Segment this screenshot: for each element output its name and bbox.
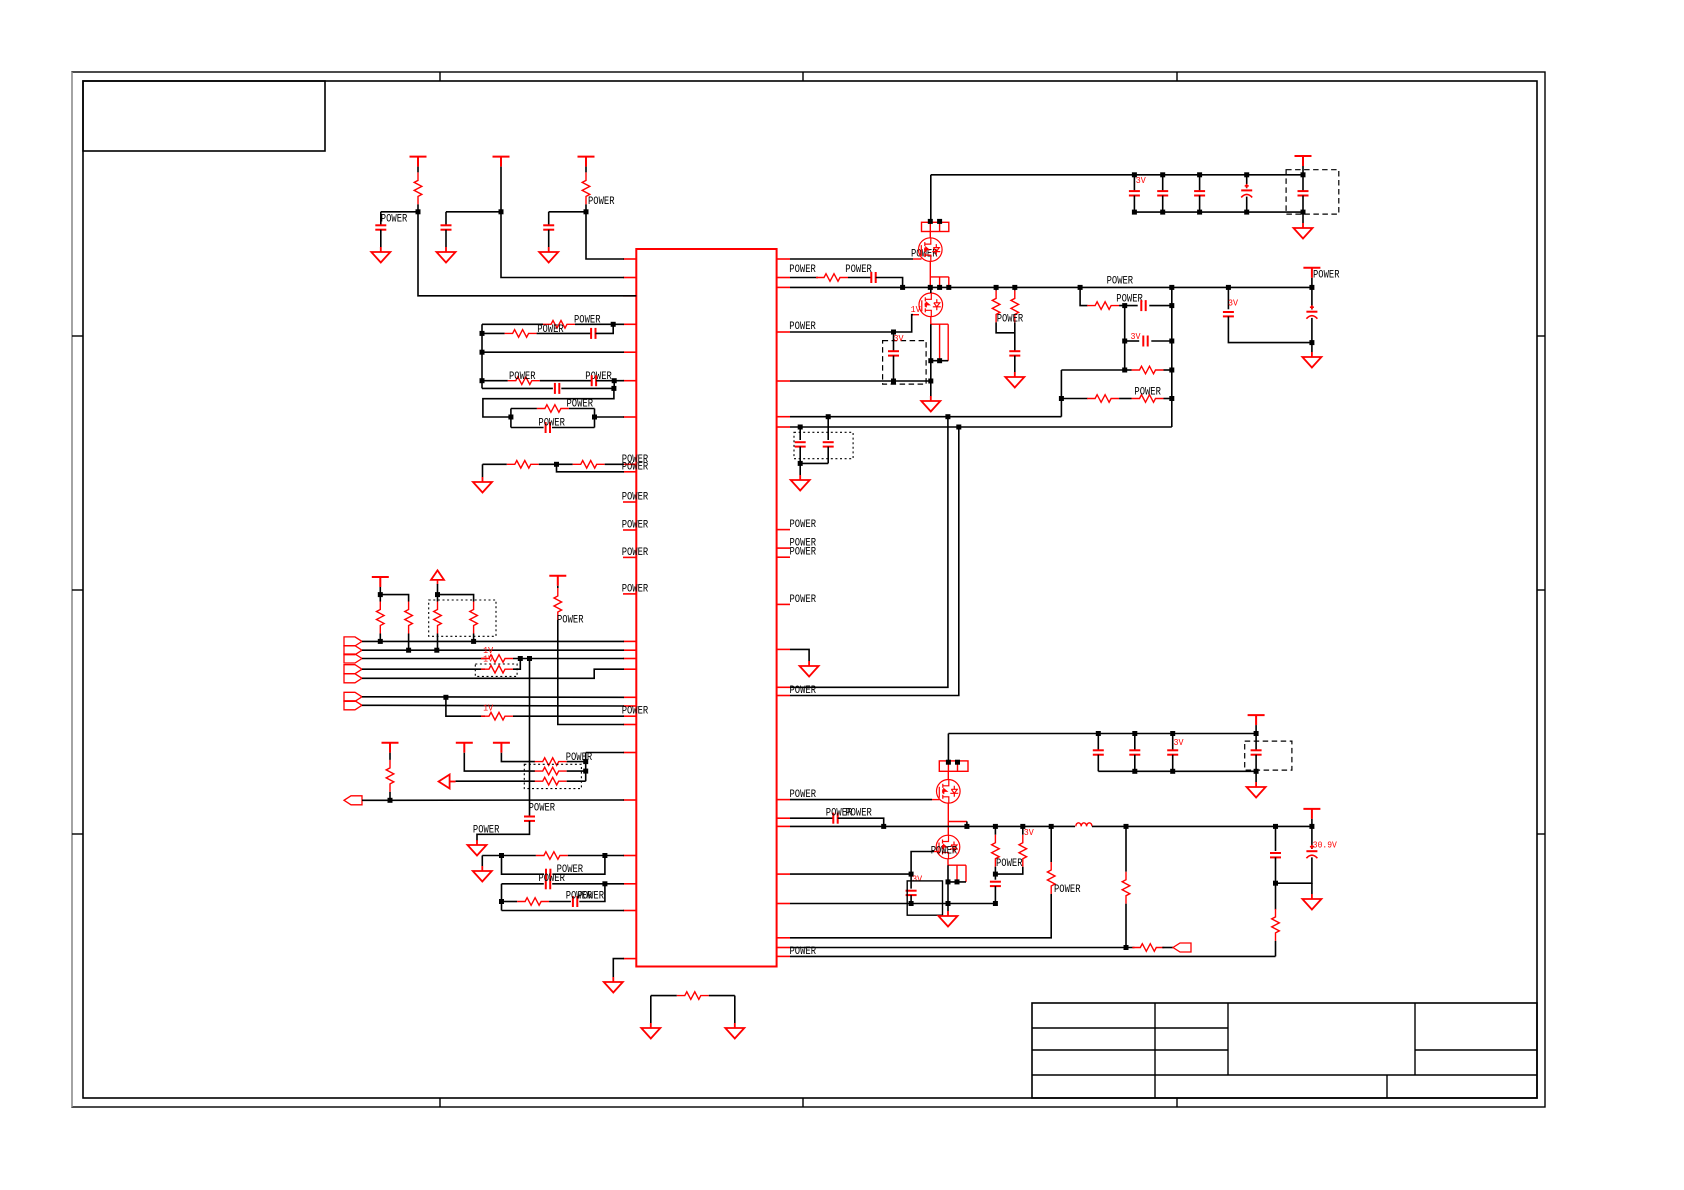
wire	[417, 167, 419, 173]
main bus 287	[790, 286, 1312, 288]
wire	[1246, 175, 1248, 188]
wire net855	[482, 855, 536, 857]
transistor Q2	[919, 293, 943, 317]
IC right pin y=818.2	[777, 817, 790, 819]
ground colB	[437, 247, 456, 263]
capacitor netF	[546, 422, 550, 433]
IC right pin y=649.4	[777, 648, 790, 650]
wire pin903	[790, 903, 995, 905]
svg-text:POWER: POWER	[1116, 294, 1143, 306]
svg-text:3V: 3V	[1136, 175, 1146, 186]
junction (1124.7,341)	[1122, 339, 1127, 344]
IC left pin y=352.2	[623, 351, 636, 353]
wire net E	[482, 387, 553, 389]
svg-text:POWER: POWER	[622, 520, 649, 532]
junction (390,800.3)	[388, 798, 393, 803]
junction (995.4,903.5)	[993, 901, 998, 906]
resistor par1	[992, 290, 1000, 322]
transistor Q3	[937, 780, 961, 804]
wire	[1097, 734, 1099, 751]
branch below	[502, 856, 545, 875]
IC right pin y=604.4	[777, 603, 790, 605]
junction (1246.7,174.8)	[1244, 172, 1249, 177]
capacitor par	[1009, 351, 1020, 355]
3V cap branch	[1227, 287, 1229, 309]
ground Q4	[939, 911, 958, 927]
resistor bottom	[677, 992, 709, 1000]
svg-text:POWER: POWER	[997, 314, 1024, 326]
resistor st2b	[1019, 835, 1027, 867]
junction (996.1,287.4)	[994, 285, 999, 290]
IC right pin y=874.1	[777, 873, 790, 875]
junction (482,352.2)	[480, 350, 485, 355]
wire cap gate	[910, 874, 912, 889]
red component box above Q1	[922, 222, 949, 231]
IC right pin y=687.3	[777, 686, 790, 688]
junction (1134.4,212.1)	[1132, 210, 1137, 215]
svg-text:POWER: POWER	[537, 324, 564, 336]
ground tap	[468, 840, 487, 856]
resistor pullup4	[470, 602, 478, 634]
wire	[947, 865, 949, 903]
resistor net464a	[507, 461, 539, 469]
IC left pin y=471.8	[623, 471, 636, 473]
junction (1228.4,287.4)	[1226, 285, 1231, 290]
wire	[1275, 857, 1277, 883]
wire	[552, 427, 595, 429]
wire	[437, 584, 439, 602]
junction (614.2,380.7)	[612, 378, 617, 383]
IC left pin y=650.2	[623, 649, 636, 651]
resistor netA	[543, 321, 575, 329]
wire	[389, 753, 391, 760]
wire net E return	[483, 388, 614, 417]
junction (939.6,221.4)	[937, 219, 942, 224]
Q3 drain lead	[947, 771, 949, 779]
bus1 wire	[362, 640, 624, 642]
capacitor net901	[573, 896, 577, 907]
IC right pin y=416.7	[777, 416, 790, 418]
IC left pin y=502.0	[623, 501, 636, 503]
wire	[1134, 755, 1136, 772]
junction (1199.6,212.1)	[1197, 210, 1202, 215]
ground dec	[791, 475, 810, 491]
ground colA	[371, 247, 390, 263]
IC right pin y=332	[777, 331, 790, 333]
dotted DNI box trio	[524, 764, 581, 788]
junction (930.3,287.4)	[928, 285, 933, 290]
junction (1162.7,212.1)	[1160, 210, 1165, 215]
capacitor colC	[543, 225, 554, 229]
bus3 wire	[362, 658, 485, 660]
IC left pin y=324.3	[623, 323, 636, 325]
wire	[966, 822, 968, 827]
Q1 source comb	[930, 261, 949, 285]
capacitor Q4 box	[906, 891, 917, 895]
wire pin649 ground	[790, 649, 809, 661]
power symbol col A	[410, 157, 427, 167]
junction (501.5,855.5)	[499, 853, 504, 858]
branch 370	[1061, 369, 1124, 371]
junction (1303,212.1)	[1301, 210, 1306, 215]
capacitor netE	[555, 383, 559, 394]
capacitor bank2 DNI	[1251, 750, 1262, 754]
junction (1172.7,771.3)	[1170, 769, 1175, 774]
rail x1171	[1171, 287, 1173, 427]
wire	[540, 380, 592, 382]
wire	[1302, 166, 1304, 175]
wire	[995, 867, 1022, 874]
rail x1124	[1124, 306, 1126, 370]
wire pin958 to ground	[613, 959, 624, 977]
IC left pin y=697.3	[623, 696, 636, 698]
resistor out tag	[1132, 944, 1164, 952]
IC left pin y=593.9	[623, 593, 636, 595]
svg-text:POWER: POWER	[509, 371, 536, 383]
svg-text:POWER: POWER	[578, 891, 605, 903]
wire	[1302, 175, 1304, 191]
bus5 wire	[362, 669, 624, 678]
IC left pin y=910.5	[623, 910, 636, 912]
wire	[734, 996, 736, 1023]
IC left pin y=716.2	[623, 715, 636, 717]
svg-text:POWER: POWER	[538, 873, 565, 885]
wire Q4 gate	[790, 852, 934, 875]
junction (594.5,417)	[592, 415, 597, 420]
svg-text:POWER: POWER	[789, 264, 816, 276]
svg-text:POWER: POWER	[529, 803, 556, 815]
junction (957.5,762.2)	[955, 760, 960, 765]
tap vertical from bus3 down	[529, 659, 531, 813]
wire	[408, 634, 410, 651]
wire	[445, 212, 447, 226]
IC left pin y=706.0	[623, 705, 636, 707]
IC left pin y=464.3	[623, 463, 636, 465]
resistor st2a	[992, 835, 1000, 867]
left rail lower	[501, 884, 503, 911]
feedback resistor x1051	[1050, 826, 1052, 862]
wire	[790, 894, 1051, 938]
long vertical from bus2	[790, 427, 959, 696]
junction (995.4,874.1)	[993, 872, 998, 877]
junction (966.9,826.4)	[964, 824, 969, 829]
capacitor out	[1270, 853, 1281, 857]
resistor x558	[554, 588, 562, 620]
connector flag y=650.2	[344, 646, 362, 655]
ground bank2	[1247, 782, 1266, 798]
wire	[552, 883, 624, 885]
capacitor colB	[441, 225, 452, 229]
IC right pin y=548.1	[777, 547, 790, 549]
junction (911.1,874.1)	[909, 872, 914, 877]
wire	[876, 278, 903, 288]
bus6 wire	[362, 696, 624, 699]
power symbol x390	[382, 743, 399, 753]
page border inner	[83, 81, 1537, 1098]
junction (1171.8,305.6)	[1169, 303, 1174, 308]
svg-text:3V: 3V	[894, 333, 904, 344]
wire to pin752	[586, 752, 624, 754]
resistor netD	[508, 377, 540, 385]
red component box above Q3	[939, 761, 968, 771]
junction (1311.9,287.4)	[1309, 285, 1314, 290]
capacitor netD	[592, 375, 596, 386]
wire	[1119, 398, 1131, 400]
junction (585.7,771.1)	[583, 769, 588, 774]
IC left pin y=380.7	[623, 380, 636, 382]
junction (1124.7,305.6)	[1122, 303, 1127, 308]
wire	[1172, 734, 1174, 751]
junction (800.2,463.4)	[798, 461, 803, 466]
junction (437.5,594.6)	[435, 592, 440, 597]
resistor pullup1	[377, 602, 385, 634]
junction (604.9,883.8)	[602, 881, 607, 886]
wire	[418, 204, 636, 295]
junction (948.0,903.5)	[946, 901, 951, 906]
IC left pin y=530.0	[623, 529, 636, 531]
wire Q2 gate	[790, 315, 913, 332]
svg-text:3V: 3V	[912, 874, 922, 885]
IC right pin y=529.6	[777, 529, 790, 531]
junction (1098.3,733.5)	[1096, 731, 1101, 736]
capacitor br1080	[1141, 300, 1145, 311]
wire	[569, 408, 595, 410]
wire net C	[482, 351, 624, 353]
wire	[1199, 196, 1201, 213]
wire	[381, 211, 418, 213]
wire	[437, 634, 439, 651]
wire	[1133, 196, 1135, 213]
wire Q3 gate	[790, 799, 932, 801]
capacitor Q2 snubber	[888, 351, 899, 355]
wire	[931, 360, 948, 362]
connector flag y=696.8	[344, 692, 362, 701]
cap bank bottom rail	[1134, 211, 1303, 213]
IC left pin y=295.8	[623, 295, 636, 297]
vertical 1061	[1060, 370, 1062, 417]
junction (893.5,381)	[891, 379, 896, 384]
wire	[446, 211, 501, 213]
junction (482,380.7)	[480, 378, 485, 383]
top-left revision box	[83, 81, 325, 151]
IC right pin y=259	[777, 258, 790, 260]
Q1 drain red lead	[929, 232, 931, 238]
wire	[709, 995, 735, 997]
Q2 source jumper	[931, 317, 948, 361]
junction (529.5,658.5)	[527, 656, 532, 661]
wire	[537, 332, 592, 334]
junction (501,211.8)	[499, 209, 504, 214]
resistor trio 3	[535, 777, 567, 785]
wire net901	[502, 901, 518, 903]
svg-text:1V: 1V	[483, 653, 493, 664]
junction (1080.1,287.4)	[1078, 285, 1083, 290]
ground pin649	[800, 661, 819, 677]
wire	[1311, 819, 1313, 827]
output bus 826	[790, 825, 1075, 827]
junction (1126,947.5)	[1124, 945, 1129, 950]
IC left pin y=724.5	[623, 724, 636, 726]
wire	[501, 167, 624, 278]
wire	[994, 867, 996, 874]
wire	[1276, 857, 1312, 883]
capacitor bank1 x=1199.6	[1194, 191, 1205, 195]
output polarized cap x1312	[1311, 826, 1313, 849]
junction (1124.7,370)	[1122, 368, 1127, 373]
wire Q1 gate	[790, 258, 913, 260]
junction (1014.8,287.4)	[1012, 285, 1017, 290]
wire	[473, 634, 475, 642]
capacitor br341	[1143, 336, 1147, 347]
junction (1171.8,370)	[1169, 368, 1174, 373]
svg-text:POWER: POWER	[845, 264, 872, 276]
divider x1126	[1125, 826, 1127, 871]
junction (380.3,594.6)	[378, 592, 383, 597]
wire	[1172, 755, 1174, 772]
wire	[994, 886, 996, 903]
junction (1134.8,733.5)	[1132, 731, 1137, 736]
dotted DNI box pullups 3-4	[429, 600, 496, 636]
wire pin277 RC	[790, 277, 818, 279]
wire net A	[482, 323, 543, 325]
top rail	[931, 174, 1303, 176]
resistor trio 1	[535, 758, 567, 766]
wire	[482, 464, 484, 477]
IC left pin y=752.5	[623, 752, 636, 754]
svg-text:POWER: POWER	[574, 314, 601, 326]
dashed box Q2 snubber	[883, 341, 927, 385]
branch 341	[1125, 340, 1140, 342]
ground net855	[473, 866, 492, 882]
resistor pin277	[816, 274, 848, 282]
polarized capacitor out	[1306, 845, 1317, 859]
wire	[501, 753, 535, 762]
IC right pin y=937.8	[777, 937, 790, 939]
wire	[1133, 175, 1135, 191]
bank2 bottom rail	[1098, 770, 1256, 772]
wire	[548, 212, 550, 226]
rail right	[613, 381, 615, 389]
wire	[1014, 356, 1016, 372]
Q3 source / Q4 drain	[948, 803, 967, 836]
IC left pin y=658.5	[623, 658, 636, 660]
IC right pin y=956.4	[777, 955, 790, 957]
IC left pin y=259	[623, 258, 636, 260]
wire	[605, 463, 624, 465]
capacitor bank2 x=1098.3	[1093, 750, 1104, 754]
svg-text:POWER: POWER	[622, 547, 649, 559]
wire	[838, 818, 884, 826]
wire	[456, 780, 535, 782]
resistor div1126	[1122, 872, 1130, 904]
wire	[585, 167, 587, 173]
junction (911.1,903.5)	[909, 901, 914, 906]
junction (1256.1,771.3)	[1254, 769, 1259, 774]
capacitor dec2	[823, 442, 834, 446]
junction (1126,826.4)	[1124, 824, 1129, 829]
connector flag y=658.5	[344, 654, 362, 663]
dashed box bank2	[1245, 741, 1292, 770]
svg-text:POWER: POWER	[622, 492, 649, 504]
ground net464	[473, 477, 492, 493]
svg-text:30.9V: 30.9V	[1313, 839, 1337, 850]
wire	[380, 212, 382, 226]
wire	[947, 904, 949, 912]
wire	[1311, 278, 1313, 288]
resistor net855	[536, 852, 568, 860]
IC left pin y=855.5	[623, 855, 636, 857]
junction (586,211.8)	[584, 209, 589, 214]
IC left pin y=277.5	[623, 277, 636, 279]
IC left pin y=800.0	[623, 799, 636, 801]
junction (939.6,360.7)	[937, 358, 942, 363]
wire	[1275, 883, 1277, 909]
wire	[596, 380, 624, 382]
dotted DNI box dec caps	[794, 432, 853, 458]
wire	[477, 821, 530, 841]
bus7 wire	[362, 704, 624, 707]
IC left pin y=883.8	[623, 883, 636, 885]
wire	[1246, 197, 1248, 213]
wire	[579, 884, 605, 902]
capacitor pin818	[833, 813, 837, 824]
wire	[650, 996, 652, 1023]
wire	[561, 387, 614, 389]
junction (1134.4,174.8)	[1132, 172, 1137, 177]
svg-text:1V: 1V	[483, 702, 493, 713]
capacitor bank1 x=1162.7	[1157, 191, 1168, 195]
wire	[910, 895, 912, 903]
connector flag y=678.3	[344, 674, 362, 683]
wire	[1119, 305, 1138, 307]
connector flag y=669.2	[344, 665, 362, 674]
resistor br398b	[1132, 395, 1164, 403]
ground bank1	[1294, 223, 1313, 239]
wire net D	[482, 380, 508, 382]
wire	[948, 881, 966, 883]
decoupling caps dotted box	[799, 427, 801, 440]
IC right pin y=695.5	[777, 695, 790, 697]
wire	[513, 658, 624, 660]
power symbol bank1	[1295, 156, 1312, 166]
svg-text:POWER: POWER	[790, 594, 817, 606]
wire	[848, 277, 871, 279]
resistor par2	[1011, 290, 1019, 322]
dashed box bank1	[1286, 170, 1339, 214]
resistor netB	[505, 330, 537, 338]
junction (585.7,761.6)	[583, 759, 588, 764]
svg-text:POWER: POWER	[538, 417, 565, 429]
wire pin381	[790, 380, 931, 382]
junction (445.9,697.3)	[443, 695, 448, 700]
resistor trio 2	[535, 767, 567, 775]
wire	[568, 855, 624, 857]
power symbol col B	[493, 157, 510, 167]
wire to pin	[595, 416, 625, 418]
junction (883.7,826.4)	[881, 824, 886, 829]
wire	[1162, 947, 1173, 949]
svg-text:POWER: POWER	[845, 807, 872, 819]
junction (408.6,650.2)	[406, 648, 411, 653]
svg-text:POWER: POWER	[567, 398, 594, 410]
connector flag y=641.4	[344, 637, 362, 646]
trio right connections	[567, 761, 586, 763]
junction (482,333.4)	[480, 331, 485, 336]
junction (1256.1,733.5)	[1254, 731, 1259, 736]
dotted DNI box bus4 resistor	[475, 664, 517, 676]
resistor fb1051	[1047, 862, 1055, 894]
wire	[1134, 734, 1136, 751]
